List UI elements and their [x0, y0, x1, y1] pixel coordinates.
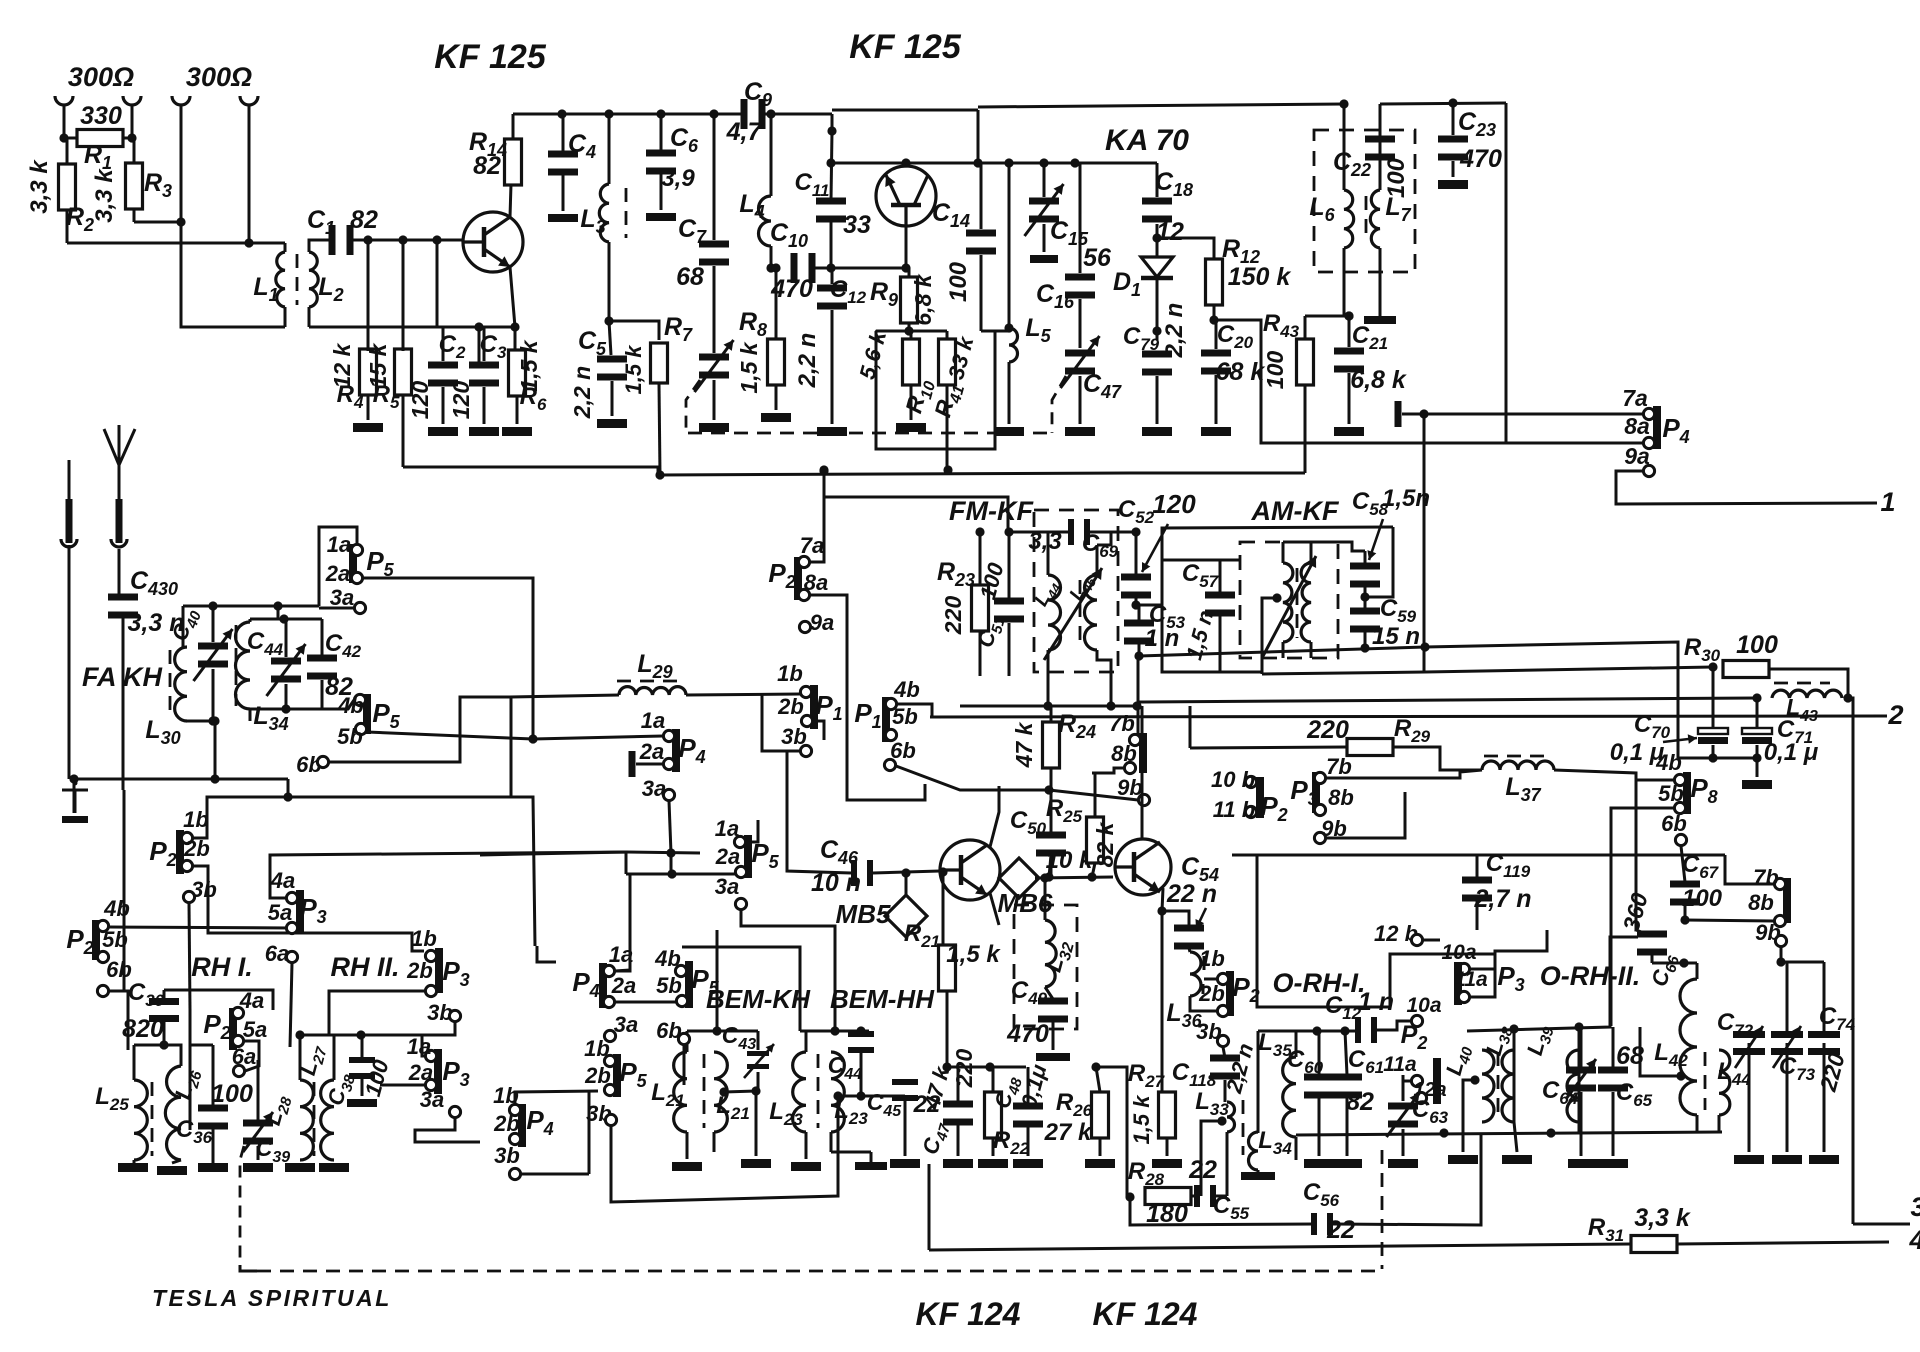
- resistor R14: [505, 139, 522, 185]
- svg-text:2a: 2a: [611, 973, 636, 998]
- core l21: [703, 1054, 706, 1128]
- varcore arrow fm: [1044, 568, 1102, 660]
- inductor L4: [759, 196, 772, 246]
- svg-text:82 k: 82 k: [1092, 821, 1118, 867]
- core l3334: [1242, 1100, 1245, 1155]
- capacitor C66: [1637, 931, 1667, 938]
- capacitor C53: [1124, 620, 1154, 627]
- svg-text:1,5 k: 1,5 k: [1129, 1094, 1154, 1145]
- wire l25 top: [134, 1045, 181, 1066]
- wire 8a: [1261, 442, 1643, 445]
- wire 10a11a box: [1470, 968, 1495, 971]
- wire c7071 bottom: [1678, 757, 1757, 760]
- ground C72: [1734, 1155, 1764, 1164]
- ground C5: [597, 419, 627, 428]
- svg-text:4b: 4b: [1655, 750, 1682, 775]
- wire c43 feed: [716, 930, 719, 1031]
- wire 11a-c63: [1403, 1075, 1411, 1081]
- capacitor C12b: [817, 285, 847, 292]
- capacitor C12n: [1355, 1017, 1361, 1043]
- wire r28 down: [1130, 1197, 1316, 1225]
- am box top wire: [1283, 542, 1365, 551]
- wire l36-2b: [1190, 996, 1217, 1011]
- capacitor C30: [149, 998, 179, 1005]
- svg-text:4b: 4b: [103, 896, 130, 921]
- emitter q4: [1162, 888, 1163, 911]
- capacitor C69: [1068, 519, 1074, 545]
- wire bus-c11: [831, 114, 834, 131]
- svg-text:5a: 5a: [243, 1017, 267, 1042]
- capacitor C43: [747, 1051, 769, 1056]
- resistor R4: [360, 349, 377, 395]
- wire l42 tap: [1676, 1071, 1685, 1080]
- switch P5 1a2a3a: [349, 544, 357, 583]
- L6 bottom node: [1344, 311, 1353, 320]
- wire y473: [1130, 472, 1305, 475]
- svg-text:FM-KF: FM-KF: [949, 496, 1034, 526]
- svg-text:470: 470: [1459, 145, 1502, 173]
- svg-text:2b: 2b: [493, 1111, 520, 1136]
- svg-text:1,5 k: 1,5 k: [621, 344, 646, 395]
- wire 3b down: [189, 903, 190, 1010]
- wire 1a-dot: [533, 736, 663, 739]
- svg-text:BEM-KH: BEM-KH: [706, 984, 811, 1014]
- wire l37 right: [1554, 770, 1674, 780]
- svg-text:FA KH: FA KH: [82, 662, 162, 692]
- dashed box FM-KF: [1034, 510, 1118, 672]
- resistor R25: [1087, 817, 1104, 863]
- wire 1b row: [193, 797, 511, 838]
- svg-text:4a: 4a: [270, 868, 295, 893]
- switch P2 10b11b: [1256, 777, 1264, 818]
- wire net4: [929, 1244, 1631, 1250]
- wire 8b-r25: [1092, 768, 1124, 773]
- capacitor C65: [1598, 1067, 1628, 1074]
- node j1: [59, 133, 68, 142]
- switch P1 1b2b3b: [810, 685, 818, 729]
- core L34l: [235, 625, 238, 706]
- stub 2a: [629, 751, 636, 777]
- switch P2 1b2b r: [1226, 971, 1234, 1016]
- resistor R8: [768, 339, 785, 385]
- wire r43 top: [1305, 315, 1349, 318]
- wire c53 bottom: [1139, 647, 1425, 656]
- svg-text:4b: 4b: [893, 677, 920, 702]
- svg-text:4,7: 4,7: [726, 118, 763, 146]
- svg-text:BEM-HH: BEM-HH: [830, 984, 935, 1014]
- diode D1: [1141, 257, 1173, 277]
- capacitor C2: [428, 362, 458, 369]
- varcap C8 tuning: [699, 354, 729, 361]
- wire p2 8a - p1: [847, 690, 925, 800]
- svg-text:1,5 k: 1,5 k: [736, 341, 762, 393]
- svg-text:1,5 k: 1,5 k: [946, 941, 1001, 968]
- wire c43 bot: [757, 1072, 760, 1091]
- capacitor C38: [349, 1057, 375, 1063]
- wire l32 top: [1044, 878, 1047, 900]
- capacitor C430: [108, 594, 138, 601]
- switch P3 10a11a: [1454, 962, 1462, 1005]
- capacitor C5: [609, 321, 611, 355]
- resistor R7: [651, 343, 668, 383]
- resistor R3: [126, 163, 143, 209]
- wire c67-8b: [1685, 920, 1774, 921]
- svg-text:33: 33: [843, 211, 871, 239]
- wire 2b down p1: [813, 721, 824, 740]
- svg-text:4b: 4b: [337, 693, 364, 718]
- svg-text:11a: 11a: [1454, 968, 1488, 991]
- svg-text:7a: 7a: [1622, 385, 1648, 411]
- resistor R22: [985, 1092, 1002, 1138]
- am tap: [1272, 593, 1281, 602]
- core L6/L7: [1365, 196, 1368, 242]
- ground C73: [1772, 1155, 1802, 1164]
- transistor Q1 KF125: [463, 212, 523, 272]
- svg-text:5b: 5b: [656, 973, 682, 998]
- wire l40 tap: [1470, 1075, 1479, 1084]
- wire r3-ant3: [134, 221, 181, 224]
- core am: [1296, 568, 1299, 638]
- wire net3 stub: [1853, 1223, 1910, 1226]
- wire 4b-5a: [109, 927, 291, 928]
- ground L23a: [791, 1162, 821, 1171]
- svg-text:2a: 2a: [715, 844, 740, 869]
- wire c72 col: [1748, 1043, 1751, 1152]
- L30 block top: [183, 605, 319, 608]
- svg-text:5a: 5a: [268, 900, 292, 925]
- resistor R30: [1723, 661, 1769, 678]
- ground L40: [1448, 1155, 1478, 1164]
- varcap C72: [1733, 1031, 1765, 1038]
- resistor R23: [972, 585, 989, 631]
- svg-text:120: 120: [1152, 489, 1196, 519]
- dash link c8: [686, 380, 700, 430]
- svg-text:9a: 9a: [810, 610, 834, 635]
- wire 3a down: [669, 801, 671, 853]
- wire c30: [163, 990, 166, 999]
- ground C15: [1030, 255, 1058, 263]
- svg-text:2a: 2a: [408, 1060, 433, 1085]
- wire long vert 1424: [1423, 414, 1426, 672]
- capacitor C11: [816, 198, 846, 205]
- inductor L7: [1370, 190, 1380, 248]
- svg-text:O-RH-I.: O-RH-I.: [1273, 968, 1366, 998]
- wire c74 col: [1823, 962, 1826, 1032]
- core L29: [617, 680, 684, 683]
- capacitor C79: [1142, 351, 1172, 358]
- ground L27: [319, 1163, 349, 1172]
- capacitor C119: [1462, 877, 1492, 884]
- wire base taps: [367, 240, 370, 351]
- inductor L45f: [1084, 575, 1097, 650]
- wire L29: [686, 694, 800, 695]
- svg-text:820: 820: [122, 1015, 164, 1043]
- core l4038: [1497, 1052, 1500, 1117]
- svg-text:100: 100: [1262, 351, 1288, 390]
- solid box am left: [1162, 528, 1262, 672]
- capacitor C55: [1194, 1185, 1200, 1207]
- svg-text:1b: 1b: [1199, 946, 1225, 971]
- ground R22: [978, 1159, 1008, 1168]
- collector line Q2: [977, 110, 980, 163]
- core L43: [1774, 682, 1830, 685]
- wire l23b bottom: [855, 1162, 887, 1170]
- wire c430 down: [122, 618, 125, 790]
- wire r5 bottom: [403, 467, 658, 475]
- svg-text:KF 124: KF 124: [1093, 1296, 1198, 1332]
- svg-text:68: 68: [676, 263, 704, 291]
- capacitor C58: [1350, 563, 1380, 570]
- inductor L40: [1482, 1050, 1494, 1122]
- core l25: [151, 1082, 154, 1156]
- ground C63: [1388, 1159, 1418, 1168]
- svg-text:3a: 3a: [420, 1087, 444, 1112]
- svg-text:1a: 1a: [407, 1034, 431, 1059]
- wire bus-l6: [1343, 104, 1346, 190]
- wire c9-l4: [770, 114, 773, 196]
- wire kh-c430: [118, 549, 121, 594]
- svg-text:22: 22: [1188, 1156, 1217, 1184]
- inductor L3: [608, 114, 611, 184]
- wire p1 4b: [897, 704, 932, 717]
- svg-text:1b: 1b: [411, 926, 437, 951]
- switch P5 4b5b: [363, 694, 371, 734]
- wire fakh bus: [74, 778, 288, 781]
- ground C48: [1013, 1159, 1043, 1168]
- svg-text:2a: 2a: [639, 739, 664, 764]
- wire 1a low: [615, 874, 630, 971]
- wire l39 bottom: [1578, 1122, 1581, 1133]
- wire r29 left: [1190, 747, 1347, 748]
- resistor R10: [903, 339, 920, 385]
- switch P3 1b2b: [435, 948, 443, 993]
- wire p2->fmkf: [824, 470, 1008, 532]
- wire 3a-mb5row: [741, 910, 835, 1031]
- svg-text:1a: 1a: [641, 708, 665, 733]
- svg-text:2b: 2b: [1198, 981, 1225, 1006]
- dashed box AM-KF: [1240, 542, 1338, 658]
- wire 6b-r24: [896, 766, 1049, 790]
- wire 12a line: [1467, 937, 1638, 1031]
- ground C39: [243, 1163, 273, 1172]
- right vertical from bus: [1505, 103, 1508, 443]
- terminal fa: [66, 499, 73, 543]
- svg-text:56: 56: [1083, 244, 1112, 272]
- terminal ant4: [240, 96, 258, 105]
- svg-text:1b: 1b: [183, 807, 209, 832]
- svg-text:8b: 8b: [1748, 890, 1774, 915]
- svg-text:3: 3: [1910, 1192, 1920, 1222]
- vert 1138: [1137, 656, 1140, 734]
- wire r27 col: [1161, 911, 1164, 1092]
- net2 line: [930, 716, 1887, 717]
- resistor R21: [939, 945, 956, 991]
- inductor L am pri: [1283, 563, 1293, 642]
- svg-text:2a: 2a: [325, 561, 350, 586]
- svg-text:15 n: 15 n: [1372, 623, 1420, 650]
- dashed box L6L7: [1314, 130, 1415, 272]
- svg-text:3,3: 3,3: [1028, 528, 1062, 555]
- earth top: [74, 790, 77, 813]
- wire 5b p8: [1611, 808, 1674, 1026]
- arrow c70: [1663, 738, 1697, 742]
- capacitor C49: [1038, 998, 1068, 1005]
- wire c10-c11 node: [812, 267, 860, 270]
- resistor R1: [77, 130, 123, 147]
- resistor R27: [1159, 1092, 1176, 1138]
- ground R10: [896, 423, 926, 432]
- switch P1 4b5b6b: [882, 697, 890, 742]
- wire l33 tap: [1201, 1121, 1222, 1196]
- ground L7: [1364, 316, 1396, 324]
- transistor Q2 KF125: [876, 166, 936, 226]
- switch P2 1b2b: [176, 830, 184, 874]
- orh2 bottom bus: [1296, 1132, 1722, 1135]
- diamond MB6: [999, 858, 1039, 898]
- ground C3: [469, 427, 499, 436]
- capacitor C56: [1311, 1213, 1317, 1235]
- inductor L2: [309, 252, 318, 307]
- wire 6b: [329, 697, 511, 762]
- wire p5mid 2a-row: [480, 852, 626, 855]
- resistor R6: [509, 350, 526, 396]
- inductor L34b: [1249, 1132, 1259, 1170]
- ground C16: [1065, 427, 1095, 436]
- top bus to c23: [1380, 103, 1506, 104]
- wire y874: [626, 873, 740, 876]
- wire 2a right: [362, 578, 533, 739]
- wire y698: [1138, 698, 1757, 702]
- wire c12-10a: [1377, 1021, 1411, 1030]
- wire 8a-down: [810, 595, 847, 690]
- wire y1067b: [960, 1066, 990, 1069]
- ground R27: [1152, 1159, 1182, 1168]
- wire c58 right: [1365, 527, 1393, 597]
- core l23: [817, 1054, 820, 1128]
- svg-text:AM-KF: AM-KF: [1251, 496, 1340, 526]
- capacitor C4: [548, 151, 578, 158]
- resistor R5: [395, 349, 412, 395]
- wire q3 base row: [999, 877, 1004, 880]
- bottom bus 475: [658, 473, 1130, 475]
- wire 7b r: [1326, 770, 1482, 778]
- wire 3a-P5: [319, 607, 354, 610]
- inductor L21a: [674, 1052, 687, 1132]
- wire bemhh tap: [833, 1091, 842, 1100]
- dashed elbow: [240, 1265, 257, 1271]
- capacitor C22: [1365, 136, 1395, 143]
- svg-text:KF 125: KF 125: [849, 28, 962, 66]
- svg-text:7b: 7b: [1109, 711, 1135, 736]
- switch P5 1a2a mid2: [744, 835, 752, 878]
- bar c38: [347, 1099, 377, 1107]
- varcap C40: [198, 643, 228, 650]
- switch P4 7a8a: [1653, 406, 1661, 449]
- wire c57 top: [1162, 559, 1241, 562]
- ground C45: [890, 1159, 920, 1168]
- terminal stub 7a: [1395, 401, 1402, 427]
- svg-text:O-RH-II.: O-RH-II.: [1540, 961, 1641, 991]
- wire c73 col: [1786, 1043, 1789, 1152]
- dot r28: [1125, 1192, 1134, 1201]
- svg-text:5b: 5b: [102, 927, 128, 952]
- diamond MB5: [885, 895, 927, 937]
- capacitor C7: [699, 241, 729, 248]
- wire 9b: [1049, 790, 1138, 800]
- ground L25: [118, 1163, 148, 1172]
- inductor L39: [1567, 1050, 1579, 1122]
- svg-text:220: 220: [1306, 716, 1349, 744]
- svg-text:10a: 10a: [1441, 941, 1476, 964]
- resistor R31: [1631, 1236, 1677, 1253]
- wire l5 col: [1008, 163, 1011, 325]
- capacitor C46: [851, 860, 857, 886]
- dashed gang line: [688, 432, 1050, 435]
- inductor L38: [1502, 1050, 1514, 1122]
- svg-text:RH I.: RH I.: [191, 952, 253, 982]
- antenna mast: [118, 465, 121, 499]
- ground R26: [1085, 1159, 1115, 1168]
- wire 1a up: [746, 820, 758, 842]
- capacitor C67: [1670, 881, 1700, 888]
- varcap C63: [1388, 1103, 1418, 1110]
- svg-text:6b: 6b: [1661, 811, 1687, 836]
- svg-text:KA 70: KA 70: [1105, 124, 1189, 157]
- switch P5 4b5b low: [685, 961, 693, 1008]
- ground L5: [994, 427, 1024, 436]
- capacitor C45: [892, 1079, 918, 1085]
- capacitor C54: [1174, 925, 1204, 932]
- ground C64: [1568, 1159, 1598, 1168]
- inductor L32: [1045, 920, 1056, 987]
- core L1/L2: [296, 254, 299, 305]
- wire 3b rh2: [422, 1022, 455, 1056]
- wire l40 grp: [1513, 1029, 1516, 1122]
- resistor R12: [1206, 259, 1223, 305]
- ground C47b: [943, 1159, 973, 1168]
- svg-text:1b: 1b: [777, 661, 803, 686]
- svg-text:3a: 3a: [330, 585, 354, 610]
- capacitor C60: [1304, 1074, 1334, 1081]
- capacitor C23: [1438, 136, 1468, 143]
- wire 5a-6a: [244, 1041, 259, 1071]
- resistor R24: [1043, 722, 1060, 768]
- inductor L34l: [236, 622, 251, 709]
- svg-text:7b: 7b: [1326, 754, 1352, 779]
- capacitor C36: [198, 1105, 228, 1112]
- wire l34-top: [250, 618, 278, 621]
- svg-text:220: 220: [940, 596, 966, 636]
- ground c43col: [741, 1159, 771, 1168]
- capacitor C21: [1334, 348, 1364, 355]
- svg-text:2,2 n: 2,2 n: [1161, 303, 1188, 359]
- inductor L am sec: [1301, 563, 1311, 642]
- wire 874 down: [615, 874, 630, 971]
- svg-text:11 b: 11 b: [1213, 797, 1255, 822]
- ground C71: [1742, 780, 1772, 789]
- terminal ant2: [123, 96, 141, 105]
- svg-text:100: 100: [945, 261, 972, 302]
- capacitor C42: [307, 655, 337, 662]
- svg-text:100: 100: [1383, 157, 1410, 198]
- capacitor C1: [329, 225, 336, 255]
- svg-text:1a: 1a: [327, 532, 351, 557]
- inductor L37: [1482, 761, 1554, 770]
- capacitor C118: [1210, 1055, 1240, 1062]
- switch P2 4b5b left: [92, 920, 100, 960]
- wire l35 left: [1257, 1031, 1260, 1133]
- ground C2: [428, 427, 458, 436]
